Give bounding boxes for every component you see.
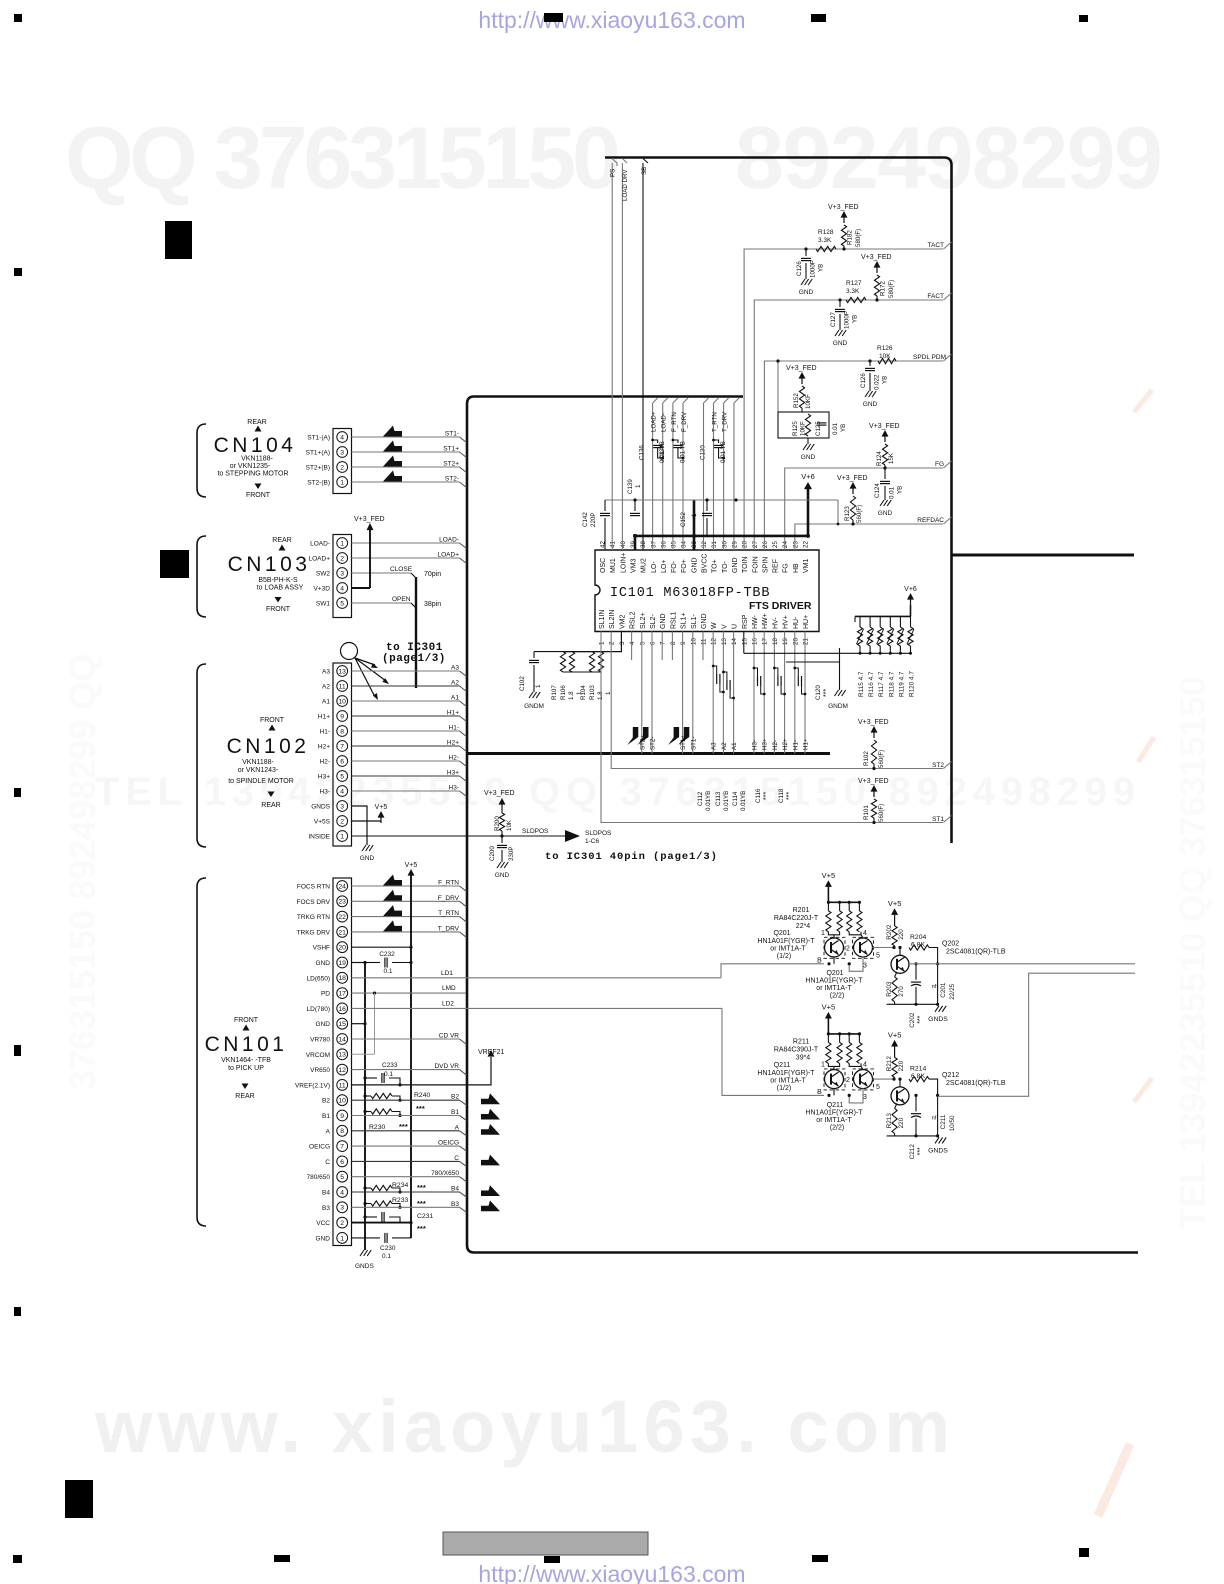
svg-text:GNDS: GNDS (355, 1263, 374, 1270)
svg-text:VM3: VM3 (630, 559, 637, 574)
svg-text:FG: FG (935, 461, 944, 468)
svg-text:1000P: 1000P (810, 260, 817, 278)
wire ST2- (352, 481, 460, 483)
svg-text:C233: C233 (382, 1062, 398, 1069)
svg-text:GND: GND (701, 613, 708, 629)
wire OEICG (352, 1145, 460, 1147)
wire ST2+ drop (641, 632, 643, 754)
svg-text:1: 1 (821, 930, 825, 937)
svg-text:R117 4.7: R117 4.7 (878, 671, 885, 697)
wire LD2 (352, 1007, 723, 1009)
svg-text:2: 2 (846, 1077, 850, 1084)
transistor Q212 2SC4081(QR)-TLB (891, 1087, 909, 1105)
svg-text:10K: 10K (879, 353, 891, 360)
svg-text:20: 20 (338, 945, 346, 952)
svg-text:R230: R230 (369, 1124, 385, 1131)
svg-text:11: 11 (339, 683, 346, 690)
svg-text:V+5: V+5 (888, 899, 902, 908)
svg-text:18: 18 (772, 638, 779, 645)
svg-text:VRCOM: VRCOM (306, 1052, 330, 1059)
svg-text:VR780: VR780 (310, 1037, 330, 1044)
svg-text:C114: C114 (732, 791, 739, 806)
resistor pack R115-R120 4.7 (855, 615, 911, 617)
svg-text:H2-: H2- (320, 759, 330, 766)
svg-text:***: *** (399, 1122, 408, 1131)
resistor R182 580(F) (841, 225, 846, 246)
capacitor pair near W V U (712, 665, 715, 668)
resistor R123 560(F) (850, 496, 855, 520)
svg-text:http://www.xiaoyu163.com: http://www.xiaoyu163.com (478, 7, 745, 33)
svg-text:16: 16 (752, 638, 759, 645)
svg-text:CN104: CN104 (214, 434, 297, 457)
flag on ST2+ (627, 727, 638, 745)
wire Q211 pin3 (849, 1088, 863, 1103)
svg-text:27: 27 (752, 541, 759, 548)
wire B3 (352, 1206, 460, 1208)
svg-text:B: B (817, 1089, 822, 1096)
svg-text:H3+: H3+ (318, 774, 330, 781)
svg-text:R125: R125 (792, 421, 799, 436)
svg-text:0.01 YB: 0.01 YB (679, 441, 686, 463)
wire H1+ drop (804, 632, 806, 754)
right thick line (952, 554, 1135, 557)
wire emitter bottom Q212 (887, 1135, 938, 1137)
svg-text:LOIN+: LOIN+ (620, 553, 627, 573)
svg-text:LOAD-: LOAD- (310, 541, 330, 548)
svg-text:R211: R211 (793, 1038, 809, 1045)
wire F_DRV vertical (682, 403, 684, 550)
connector CN103 bracket (197, 536, 206, 617)
wire LMD (352, 992, 467, 994)
svg-text:SLDPOS: SLDPOS (585, 830, 612, 837)
svg-text:B1: B1 (322, 1113, 330, 1120)
ground GNDS Q202 (935, 1006, 939, 1012)
black block top-left (165, 221, 192, 259)
svg-text:VKN1188-: VKN1188- (242, 759, 274, 766)
wire H1- drop (794, 632, 796, 754)
resistor R240 B2 (363, 1094, 366, 1097)
svg-text:3: 3 (340, 1205, 344, 1212)
svg-text:F_RTN: F_RTN (671, 412, 678, 432)
svg-text:22/25: 22/25 (949, 983, 956, 999)
svg-text:R120 4.7: R120 4.7 (909, 671, 916, 697)
wire B2 (352, 1099, 460, 1101)
connector CN104 body (333, 429, 352, 494)
svg-text:www. xiaoyu163. com: www. xiaoyu163. com (94, 1385, 950, 1468)
svg-text:39*4: 39*4 (796, 1054, 811, 1061)
resistor R128 3.3K (816, 246, 836, 251)
wire B4 (352, 1191, 460, 1193)
wire RSP to resistor pack (743, 632, 745, 654)
resistor R126 10K (878, 358, 896, 363)
svg-text:6.8K: 6.8K (911, 941, 925, 948)
wire F_RTN vertical (672, 403, 674, 550)
svg-text:30: 30 (721, 541, 728, 548)
svg-text:R101: R101 (863, 805, 870, 820)
resistor network R211 RA84C390J-T 39*4 (828, 1033, 859, 1035)
resistor network R201 RA84C220J-T 22*4 (828, 901, 859, 903)
wire VM2 pin3 (563, 632, 621, 652)
svg-text:to SPINDLE MOTOR: to SPINDLE MOTOR (228, 778, 294, 785)
svg-text:560(F): 560(F) (878, 750, 885, 768)
svg-text:OSC: OSC (600, 558, 607, 573)
wire LOAD DRV (621, 163, 623, 550)
svg-text:17: 17 (338, 991, 346, 998)
svg-text:GND: GND (660, 613, 667, 629)
svg-text:H1+: H1+ (318, 714, 330, 721)
svg-text:to IC301 40pin (page1/3): to IC301 40pin (page1/3) (545, 851, 718, 863)
wire A1 to border (352, 700, 460, 702)
svg-text:4: 4 (863, 930, 867, 937)
svg-text:2SC4081(QR)-TLB: 2SC4081(QR)-TLB (946, 1080, 1006, 1087)
wire A3 to border (352, 670, 460, 672)
capacitor C232 0.1 (365, 962, 380, 964)
svg-text:FG: FG (783, 563, 790, 573)
svg-text:V+6: V+6 (801, 472, 815, 481)
svg-text:TO-: TO- (722, 560, 729, 573)
node V+6 bus (635, 535, 808, 538)
svg-text:26: 26 (762, 541, 769, 548)
wire LD1 (352, 977, 722, 979)
svg-text:Q202: Q202 (942, 940, 959, 947)
svg-text:R214: R214 (910, 1065, 926, 1072)
wire C (352, 1160, 460, 1162)
svg-text:SL2-: SL2- (650, 614, 657, 629)
svg-text:Q201: Q201 (773, 930, 790, 937)
wire SB (642, 163, 644, 550)
svg-text:R213: R213 (886, 1113, 893, 1129)
svg-text:OEICG: OEICG (438, 1140, 459, 1147)
svg-text:ST2-(B): ST2-(B) (307, 480, 330, 487)
svg-text:37: 37 (650, 541, 657, 548)
svg-text:8: 8 (340, 728, 344, 735)
svg-text:ST2+(B): ST2+(B) (306, 465, 330, 472)
svg-text:36: 36 (660, 541, 667, 548)
wires TO+ TO- GND verticals (703, 403, 705, 550)
svg-text:4: 4 (340, 434, 344, 441)
svg-text:0.01YB: 0.01YB (723, 791, 730, 811)
svg-text:GND: GND (799, 289, 814, 296)
svg-text:or VKN1235-: or VKN1235- (230, 463, 271, 470)
svg-text:ST2-: ST2- (445, 476, 459, 483)
svg-text:32: 32 (701, 541, 708, 548)
transistor Q211 (1/2) (825, 1070, 844, 1089)
svg-text:REAR: REAR (261, 802, 280, 809)
wire ST1+ drop (682, 632, 684, 754)
svg-text:GNDM: GNDM (828, 703, 848, 710)
svg-text:REFDAC: REFDAC (917, 517, 944, 524)
svg-text:TRKG RTN: TRKG RTN (297, 914, 330, 921)
svg-text:QQ 376315150: QQ 376315150 (65, 108, 621, 207)
svg-text:LOAD+: LOAD+ (438, 552, 460, 559)
resistor R212 220 (892, 1057, 897, 1077)
svg-text:C124: C124 (874, 483, 881, 498)
svg-text:VCC: VCC (316, 1220, 330, 1227)
flag on ST2- (638, 727, 649, 745)
ground GNDM C102 (529, 692, 533, 698)
wire Q201 pin3 (849, 957, 863, 972)
svg-text:H3-: H3- (320, 789, 330, 796)
resistor R233 B3 (363, 1202, 366, 1205)
svg-text:H2-: H2- (772, 740, 779, 750)
svg-text:1: 1 (340, 479, 344, 486)
svg-text:R119 4.7: R119 4.7 (898, 671, 905, 697)
wire SW2 CLOSE (352, 572, 412, 574)
svg-text:H2+: H2+ (318, 744, 330, 751)
wire GND15 (352, 1023, 366, 1025)
svg-text:C134: C134 (659, 445, 666, 460)
svg-text:C: C (325, 1159, 330, 1166)
svg-text:SW1: SW1 (316, 601, 330, 608)
svg-text:17: 17 (762, 638, 769, 645)
svg-text:***: *** (417, 1224, 426, 1233)
svg-text:R203: R203 (886, 981, 893, 997)
svg-text:23: 23 (338, 899, 346, 906)
flag on A (481, 1124, 500, 1135)
transistor Q201 (1/2) (825, 938, 844, 957)
transistor Q202 2SC4081(QR)-TLB (891, 955, 909, 973)
wire A (352, 1130, 460, 1132)
connector CN102 body (333, 663, 352, 846)
svg-text:LD(650): LD(650) (307, 975, 330, 982)
svg-text:***: *** (763, 792, 770, 800)
svg-text:R152: R152 (793, 393, 800, 408)
svg-text:CN103: CN103 (228, 553, 311, 576)
svg-text:FRONT: FRONT (266, 606, 291, 613)
svg-text:1: 1 (535, 684, 542, 688)
capacitor C120 *** and GNDM (786, 661, 840, 663)
svg-text:R124: R124 (876, 451, 883, 466)
svg-text:0.01 YB: 0.01 YB (720, 441, 727, 463)
svg-text:5: 5 (340, 1174, 344, 1181)
resistor R125 10KF with capacitor C125 box (777, 361, 779, 412)
flag on ST1- (678, 727, 689, 745)
svg-text:220: 220 (898, 1060, 905, 1071)
ground GNDS Q212 (935, 1137, 939, 1143)
svg-text:FRONT: FRONT (260, 717, 285, 724)
capacitor C134 0.01 YB (673, 440, 678, 443)
wire 780/X650 (352, 1176, 460, 1178)
svg-text:HU-: HU- (793, 616, 800, 629)
svg-text:C230: C230 (380, 1245, 396, 1252)
svg-text:B1: B1 (451, 1109, 459, 1116)
svg-text:10/50: 10/50 (949, 1115, 956, 1131)
svg-text:LO-: LO- (651, 561, 658, 573)
wire ST1 net (601, 632, 943, 823)
svg-text:12: 12 (338, 1067, 346, 1074)
svg-text:HU+: HU+ (803, 615, 810, 629)
wire H3+ to border (352, 775, 460, 777)
svg-text:21: 21 (338, 929, 346, 936)
svg-text:R212: R212 (886, 1056, 893, 1072)
svg-text:9: 9 (340, 713, 344, 720)
svg-text:RSP: RSP (742, 614, 749, 629)
capacitor C142 220P (604, 500, 606, 511)
wire B1 (352, 1115, 460, 1117)
svg-text:to STEPPING MOTOR: to STEPPING MOTOR (217, 471, 288, 478)
ground GND CN102 (362, 845, 366, 851)
svg-text:1: 1 (340, 833, 344, 840)
svg-text:ST1-: ST1- (445, 431, 459, 438)
wire ST1+ (352, 451, 460, 453)
svg-text:LOAD-: LOAD- (661, 413, 668, 432)
svg-text:RSL2: RSL2 (630, 611, 637, 629)
svg-text:SL2IN: SL2IN (609, 610, 616, 629)
svg-text:2: 2 (846, 945, 850, 952)
svg-text:29: 29 (731, 541, 738, 548)
svg-text:TACT: TACT (928, 242, 945, 249)
flag on ST2+ (383, 456, 402, 467)
resistor ('R203', '270') (895, 972, 897, 977)
svg-text:C232: C232 (379, 951, 395, 958)
svg-text:SLDPOS: SLDPOS (522, 828, 549, 835)
svg-text:C142: C142 (582, 512, 589, 527)
main shield box outline (467, 397, 1138, 1253)
svg-text:or IMT1A-T: or IMT1A-T (770, 946, 806, 953)
svg-text:H1-: H1- (792, 740, 799, 750)
svg-text:270: 270 (898, 986, 905, 997)
flag on ST1+ (668, 727, 679, 745)
capacitor C126 1000P YB (804, 247, 807, 250)
svg-text:R104: R104 (580, 685, 587, 700)
wire H2- drop (773, 632, 775, 754)
svg-text:3: 3 (863, 962, 867, 969)
svg-text:V+3D: V+3D (314, 586, 331, 593)
svg-text:C136: C136 (639, 445, 646, 460)
svg-text:0.01: 0.01 (889, 486, 896, 499)
svg-text:(2/2): (2/2) (830, 993, 844, 1000)
svg-text:ST2+: ST2+ (443, 461, 459, 468)
wire TACT (744, 249, 943, 550)
svg-text:http://www.xiaoyu163.com: http://www.xiaoyu163.com (478, 1561, 745, 1584)
capacitor C102 1 (533, 652, 535, 658)
svg-text:V+3_FED: V+3_FED (786, 365, 817, 372)
wire ST2+ (352, 466, 460, 468)
svg-text:***: *** (823, 689, 830, 697)
arrows from circle (355, 658, 375, 665)
svg-text:V+3_FED: V+3_FED (869, 423, 900, 430)
svg-text:C200: C200 (489, 846, 496, 861)
wire PD to VRCOM (373, 992, 376, 995)
svg-text:C201: C201 (940, 982, 947, 998)
ground GND C128 (865, 391, 869, 397)
wire A2 to border (352, 685, 460, 687)
wire A2 drop (722, 632, 724, 754)
svg-text:C126: C126 (860, 373, 867, 388)
svg-text:MU1: MU1 (610, 558, 617, 573)
wire LOAD- vertical (662, 403, 664, 550)
vertical line to IC301 (415, 577, 417, 688)
svg-text:(2/2): (2/2) (830, 1125, 844, 1132)
svg-text:VR650: VR650 (310, 1067, 330, 1074)
svg-text:A3: A3 (451, 665, 459, 672)
svg-text:1-C6: 1-C6 (585, 838, 599, 845)
svg-text:R201: R201 (793, 907, 810, 914)
svg-text:HN1A01F(YGR)-T: HN1A01F(YGR)-T (757, 938, 815, 945)
capacitor C127 1000P YB (838, 298, 841, 301)
resistor R202 220 (892, 926, 897, 946)
svg-text:TOIN: TOIN (742, 556, 749, 573)
capacitor C231 (365, 1216, 377, 1218)
svg-text:GND: GND (316, 1021, 331, 1028)
ground GND C126 (801, 279, 805, 285)
wire H2+ drop (784, 632, 786, 754)
svg-text:H2+: H2+ (782, 738, 789, 750)
svg-text:C202: C202 (909, 1012, 916, 1028)
svg-text:5: 5 (639, 641, 646, 645)
connector CN101 body (333, 878, 352, 1246)
svg-text:5: 5 (876, 952, 880, 959)
svg-text:nf: nf (932, 984, 937, 990)
svg-text:GND: GND (801, 454, 816, 461)
svg-text:LD(780): LD(780) (307, 1006, 330, 1013)
svg-text:C125: C125 (815, 421, 822, 436)
svg-text:R233: R233 (392, 1197, 408, 1204)
svg-text:8: 8 (670, 641, 677, 645)
wire H3- drop (753, 632, 755, 754)
svg-text:H3-: H3- (449, 785, 459, 792)
capacitor C233 0.1 (365, 1077, 377, 1079)
svg-text:V+6: V+6 (904, 586, 917, 593)
svg-text:21: 21 (803, 638, 810, 645)
svg-text:B3: B3 (322, 1205, 330, 1212)
svg-text:C211: C211 (940, 1114, 947, 1129)
wire ST2- drop (651, 632, 653, 754)
svg-text:4: 4 (340, 585, 344, 592)
capacitor C130 0.01 YB (714, 440, 719, 443)
black block bottom-left (65, 1480, 93, 1518)
svg-text:10KF: 10KF (800, 421, 807, 436)
svg-text:GND: GND (833, 340, 848, 347)
svg-text:H1+: H1+ (803, 738, 810, 750)
capacitor near HW (753, 667, 756, 670)
svg-text:H1+: H1+ (447, 710, 459, 717)
svg-text:3: 3 (340, 570, 344, 577)
svg-text:R202: R202 (886, 924, 893, 940)
svg-text:V+3_FED: V+3_FED (828, 204, 859, 211)
wire H1+ to border (352, 715, 460, 717)
svg-text:R200: R200 (494, 816, 501, 831)
svg-text:15: 15 (741, 638, 748, 645)
svg-text:SL1IN: SL1IN (599, 610, 606, 629)
svg-text:220: 220 (898, 929, 905, 940)
wire LOAD- (352, 542, 460, 544)
svg-text:7: 7 (660, 641, 667, 645)
svg-text:LOAD-: LOAD- (439, 537, 459, 544)
svg-text:T_RTN: T_RTN (438, 910, 459, 917)
svg-text:C152: C152 (680, 512, 687, 527)
svg-text:V+5: V+5 (822, 1002, 836, 1011)
svg-text:3: 3 (863, 1094, 867, 1101)
svg-text:R107: R107 (551, 685, 558, 700)
svg-text:18: 18 (338, 975, 346, 982)
svg-text:YB: YB (840, 424, 847, 432)
svg-text:35: 35 (671, 541, 678, 548)
svg-text:ST1+(A): ST1+(A) (306, 450, 330, 457)
svg-text:SW2: SW2 (316, 571, 330, 578)
svg-text:H1-: H1- (449, 725, 459, 732)
svg-text:RSL1: RSL1 (670, 611, 677, 629)
svg-text:2SC4081(QR)-TLB: 2SC4081(QR)-TLB (946, 948, 1006, 955)
wire T_RTN (352, 916, 460, 918)
svg-text:C118: C118 (778, 788, 785, 803)
flag on B4 (481, 1185, 500, 1196)
resistor R152 10KF (799, 386, 804, 408)
svg-text:Q212: Q212 (942, 1072, 959, 1079)
svg-text:2: 2 (340, 1220, 344, 1227)
ground GND C200 (497, 862, 501, 868)
wire Q201 pin5 to R202/R212 (873, 947, 895, 949)
